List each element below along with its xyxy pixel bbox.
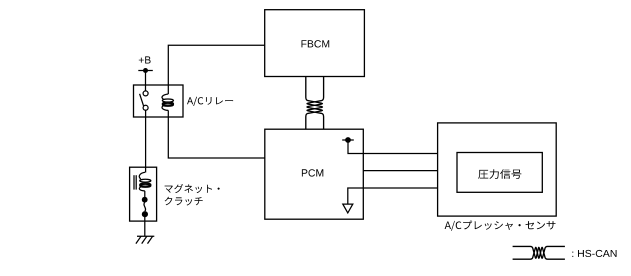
magnet clutch slip contact [142, 191, 148, 217]
FBCM module box [265, 10, 365, 77]
magnet clutch label line 1 [165, 184, 220, 193]
magnet clutch label line 2 [165, 197, 203, 206]
wire PCM supply to pressure sensor [348, 140, 438, 154]
PCM sensor ground arrow [343, 204, 353, 213]
relay switch contact [140, 91, 149, 110]
HS-CAN legend twisted pair symbol [513, 246, 565, 259]
FBCM label [302, 40, 330, 47]
wire +B to relay switch [145, 71, 147, 92]
wire pressure signal to PCM [363, 170, 437, 172]
pressure signal block [457, 153, 542, 193]
+B label [139, 56, 151, 63]
wire relay switch to magnet clutch [145, 110, 147, 172]
wire sensor ground return [348, 188, 438, 204]
twisted pair CAN bus wires FBCM to PCM [306, 77, 324, 130]
magnet clutch box [130, 167, 157, 221]
PCM box [265, 129, 364, 219]
A/C relay box [134, 85, 184, 117]
PCM label [302, 169, 323, 176]
wire relay coil to FBCM [168, 45, 264, 94]
node PCM sensor supply [342, 137, 354, 143]
wire magnet clutch to ground [144, 217, 146, 237]
A/C pressure sensor box [438, 123, 557, 216]
A/C pressure sensor label [445, 221, 556, 231]
ground chassis symbol [136, 236, 154, 243]
relay coil [162, 94, 174, 110]
HS-CAN legend text [572, 250, 616, 257]
A/C relay label [187, 97, 233, 106]
wire relay coil to PCM [168, 110, 264, 158]
magnet clutch coil with core [134, 172, 151, 191]
node +B battery supply [138, 68, 153, 73]
pressure signal label [478, 169, 521, 179]
